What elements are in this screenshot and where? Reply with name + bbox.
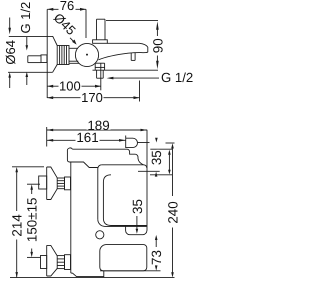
dimension 90 line: [93, 21, 159, 71]
lower union nipple: [41, 256, 47, 269]
dimension 76 arrows: [47, 8, 53, 11]
dimension 170: [47, 81, 139, 102]
dimension Ø64 arrows: [9, 18, 11, 89]
nipple collar: [41, 55, 47, 63]
svg-text:G 1/2: G 1/2: [18, 2, 33, 34]
dimension 189: [47, 129, 147, 131]
dimension 189 text: [87, 121, 111, 130]
spout top edge: [107, 42, 139, 44]
lever tab: [126, 138, 138, 147]
svg-text:170: 170: [81, 90, 103, 105]
spout tip: [140, 43, 148, 52]
dimension 35 top exts: [138, 143, 172, 175]
body bottom line: [70, 62, 80, 64]
spout plate outer: [98, 130, 147, 231]
label Ø45 leader arrow: [70, 38, 75, 43]
dimension 170 text: [81, 93, 104, 102]
dimension 100: [47, 64, 101, 91]
body slab: [71, 162, 104, 277]
wall line: [46, 9, 48, 98]
dimension 73: [100, 240, 161, 271]
dimension 76 line: [47, 9, 86, 38]
aerator band: [131, 53, 135, 61]
svg-text:161: 161: [76, 130, 98, 145]
upper union thread: [57, 178, 64, 189]
dimension 35 mid: [136, 216, 138, 230]
svg-text:Ø64: Ø64: [3, 40, 18, 65]
svg-text:214: 214: [10, 214, 25, 237]
dimension 214: [12, 167, 44, 277]
dimension 35 top arrows: [155, 138, 158, 143]
svg-text:150±15: 150±15: [25, 198, 40, 243]
svg-text:73: 73: [149, 250, 164, 265]
diverter circle: [96, 231, 104, 239]
upper union nut: [65, 177, 71, 190]
lower union nut: [65, 255, 71, 270]
svg-text:35: 35: [130, 199, 145, 214]
svg-text:100: 100: [59, 79, 81, 94]
dimension 161: [47, 127, 126, 147]
dimension 240: [10, 143, 175, 278]
svg-text:240: 240: [165, 201, 180, 223]
upper bell: [47, 167, 58, 200]
lever nose: [127, 149, 144, 165]
union knurled nut: [57, 46, 69, 65]
diverter knob stem: [97, 19, 106, 40]
svg-text:90: 90: [150, 38, 165, 53]
spout plate inner: [103, 175, 146, 226]
spout tip tab: [126, 226, 147, 234]
wall nipple tube: [28, 56, 41, 63]
lower bell: [47, 245, 58, 276]
lower bracket: [100, 245, 147, 271]
dimension 161 text: [76, 133, 100, 142]
spout underside curve: [99, 52, 148, 60]
label G 1/2 left arrows: [26, 37, 28, 46]
lower union thread: [57, 256, 64, 269]
svg-text:G 1/2: G 1/2: [161, 70, 193, 85]
escutcheon bell: [8, 36, 57, 72]
label G 1/2 right leader: [112, 77, 159, 79]
shower port: [95, 63, 104, 78]
neck to ball: [69, 48, 78, 61]
handle ball: [75, 43, 98, 66]
svg-text:35: 35: [149, 150, 164, 165]
dimension 150±15: [27, 184, 41, 257]
dimension 76 text: [59, 2, 76, 12]
ball center dot: [86, 54, 88, 56]
dimension 100 text: [59, 82, 82, 91]
lever body: [67, 148, 127, 168]
diverter knob base: [93, 40, 108, 44]
upper union nipple: [39, 176, 47, 189]
